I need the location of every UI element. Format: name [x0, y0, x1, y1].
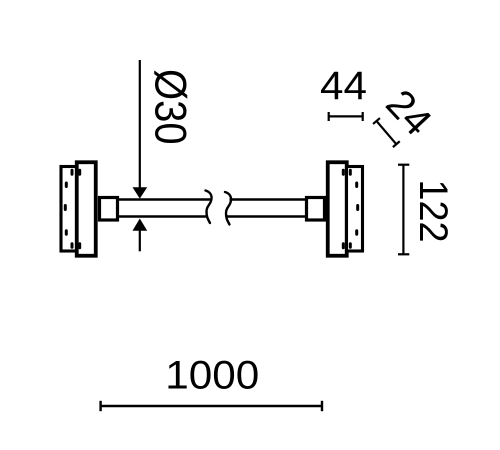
dim 1000 tick right [321, 401, 323, 411]
diameter dim extension line lower [139, 230, 141, 252]
left bracket back plate [61, 167, 77, 252]
right bracket screw bottom pair [342, 242, 345, 249]
break mark right [225, 192, 231, 225]
right bracket screw top pair [342, 169, 345, 176]
dim 44 line [329, 115, 363, 117]
diameter dim arrow down [133, 187, 148, 198]
svg-text:1000: 1000 [165, 354, 259, 398]
tube left segment bottom edge [117, 215, 208, 218]
diameter dim extension line upper [139, 60, 141, 190]
tube right segment bottom edge [226, 215, 308, 218]
dim 1000 tick left [99, 401, 101, 411]
right connector block [307, 198, 325, 221]
dim 44 tick right [362, 112, 364, 121]
dim 122 tick bottom [398, 253, 409, 255]
left bracket screw top pair [71, 169, 74, 176]
left connector block [100, 198, 118, 221]
tube left segment top edge [117, 198, 212, 201]
svg-text:24: 24 [377, 82, 440, 145]
dim 1000 line [101, 405, 322, 407]
diameter dim arrow up [133, 219, 148, 231]
dim 44 tick left [328, 112, 330, 121]
left bracket screw bottom pair [71, 242, 74, 249]
break mark left [206, 191, 212, 224]
right bracket back plate [347, 167, 363, 252]
svg-text:44: 44 [320, 64, 367, 108]
right bracket front plate [328, 162, 347, 256]
dim 122 tick top [398, 164, 409, 166]
right bracket screw column [355, 182, 358, 189]
left bracket screw column [65, 182, 68, 189]
dim 122 line [402, 165, 404, 255]
tube right segment top edge [230, 198, 308, 201]
svg-text:122: 122 [411, 180, 455, 243]
dim 24 line with ticks [373, 118, 400, 147]
svg-text:Ø30: Ø30 [146, 69, 196, 145]
left bracket front plate [77, 162, 96, 256]
